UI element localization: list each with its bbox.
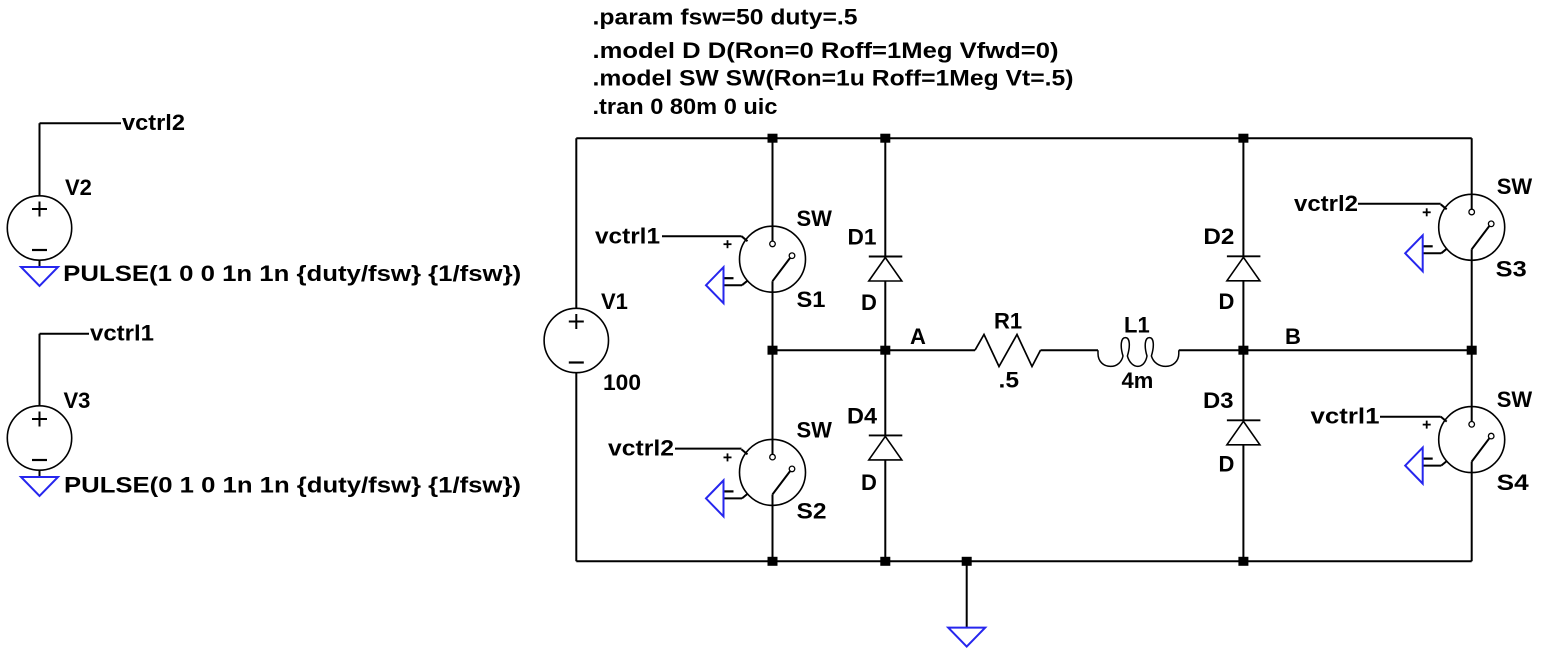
svg-text:D1: D1 [848,225,877,250]
svg-text:vctrl2: vctrl2 [122,110,185,135]
wire top rail [576,137,1471,139]
wire right rail S3 to node B [1471,260,1473,350]
ground flag at S2 minus pin [706,480,724,516]
svg-text:A: A [910,324,926,349]
wire vctrl1 to S4 plus pin [1380,416,1441,418]
wire bottom rail [576,560,1471,562]
ground flag at S4 minus pin [1405,448,1423,484]
svg-text:SW: SW [797,417,833,442]
wire bottom rail to ground [966,561,968,627]
wire D2 to node B [1242,281,1244,350]
svg-text:B: B [1285,324,1301,349]
ground at bottom rail [948,628,985,647]
voltage source V2 [7,196,71,260]
svg-text:R1: R1 [994,309,1022,334]
junction D1 top [880,134,890,143]
svg-text:.model D D(Ron=0 Roff=1Meg Vfw: .model D D(Ron=0 Roff=1Meg Vfwd=0) [593,38,1059,63]
junction S2 bottom [768,557,778,566]
wire R1 to L1 [1041,349,1099,351]
junction node B right rail [1467,346,1477,355]
wire vctrl2 to S3 plus pin [1358,203,1441,205]
wire top rail to D1 [884,138,886,256]
svg-text:D: D [861,290,877,315]
svg-text:SW: SW [797,206,833,231]
svg-text:SW: SW [1497,387,1533,412]
svg-text:S3: S3 [1496,257,1527,282]
wire node A to D4 [884,350,886,435]
wire D1 to node A [884,281,886,350]
svg-text:vctrl2: vctrl2 [608,436,674,461]
junction node A at S column [768,346,778,355]
wire vctrl2 net from V2 [40,123,122,196]
ground flag at S1 minus pin [706,267,724,303]
svg-text:D: D [1219,289,1235,314]
junction ground stub [962,557,972,566]
svg-text:4m: 4m [1122,368,1154,393]
junction D4 bottom [880,557,890,566]
svg-text:PULSE(1 0 0 1n 1n {duty/fsw} {: PULSE(1 0 0 1n 1n {duty/fsw} {1/fsw}) [63,261,521,286]
wire top rail to S1 [772,138,774,226]
ground below V3 [21,477,58,496]
diode D4 [869,435,903,460]
switch S3 [1423,194,1505,260]
svg-text:D2: D2 [1203,224,1234,249]
wire V3 to ground [39,470,41,477]
diode D3 [1227,420,1261,445]
wire right rail node B to S4 [1471,350,1473,406]
inductor L1 [1098,338,1179,367]
wire left rail upper [575,138,577,308]
voltage source V3 [7,406,71,470]
wire left rail lower [575,373,577,562]
wire node A to R1 [773,349,976,351]
svg-text:L1: L1 [1124,313,1150,338]
ground below V2 [21,267,58,286]
wire vctrl2 to S2 plus pin [675,448,742,450]
switch S1 [724,226,806,292]
svg-text:D3: D3 [1203,388,1234,413]
svg-text:vctrl1: vctrl1 [595,223,660,248]
svg-text:S2: S2 [797,498,827,523]
svg-text:.model SW SW(Ron=1u Roff=1Meg: .model SW SW(Ron=1u Roff=1Meg Vt=.5) [593,66,1074,91]
svg-text:D4: D4 [847,404,878,429]
junction D3 bottom [1238,557,1248,566]
wire vctrl1 net from V3 [40,334,90,407]
svg-text:PULSE(0 1 0 1n 1n {duty/fsw} {: PULSE(0 1 0 1n 1n {duty/fsw} {1/fsw}) [64,473,521,498]
wire node A to S2 [772,350,774,439]
junction D1 node A [880,346,890,355]
svg-text:vctrl1: vctrl1 [90,321,154,346]
svg-text:vctrl2: vctrl2 [1294,191,1358,216]
svg-text:.tran 0 80m 0 uic: .tran 0 80m 0 uic [593,94,778,119]
svg-text:S4: S4 [1497,470,1530,495]
voltage source V1 [544,308,608,372]
resistor R1 [975,335,1041,367]
svg-text:SW: SW [1497,174,1533,199]
wire vctrl1 to S1 plus pin [662,235,742,237]
svg-text:V1: V1 [601,289,628,314]
svg-text:V3: V3 [64,388,91,413]
switch S4 [1423,407,1505,473]
svg-text:100: 100 [603,370,641,395]
svg-text:V2: V2 [65,175,92,200]
ground flag at S3 minus pin [1405,235,1423,271]
svg-text:vctrl1: vctrl1 [1311,404,1380,429]
junction D2 top [1238,134,1248,143]
wire node B to D3 [1242,350,1244,420]
wire S2 to bottom rail [772,505,774,561]
wire top rail to D2 [1242,138,1244,256]
svg-text:D: D [1219,452,1235,477]
wire D3 to bottom rail [1242,445,1244,562]
svg-text:D: D [861,470,877,495]
wire right rail lower [1471,473,1473,562]
svg-text:.param fsw=50 duty=.5: .param fsw=50 duty=.5 [593,5,858,30]
wire S1 to node A [772,292,774,350]
junction S1 top [768,134,778,143]
svg-text:.5: .5 [999,368,1020,393]
wire right rail upper [1471,138,1473,194]
svg-text:S1: S1 [797,287,826,312]
switch S2 [724,439,806,505]
diode D2 [1227,256,1261,281]
junction D2 node B [1238,346,1248,355]
diode D1 [869,257,903,282]
wire L1 to node B [1179,349,1472,351]
wire V2 to ground [39,260,41,267]
wire D4 to bottom rail [884,460,886,561]
